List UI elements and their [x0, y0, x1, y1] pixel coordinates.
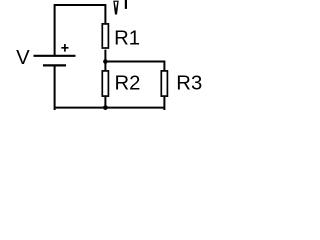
svg-text:V: V	[16, 47, 30, 69]
svg-text:R3: R3	[176, 72, 202, 94]
svg-text:R1: R1	[114, 28, 140, 50]
svg-text:R2: R2	[115, 72, 141, 94]
